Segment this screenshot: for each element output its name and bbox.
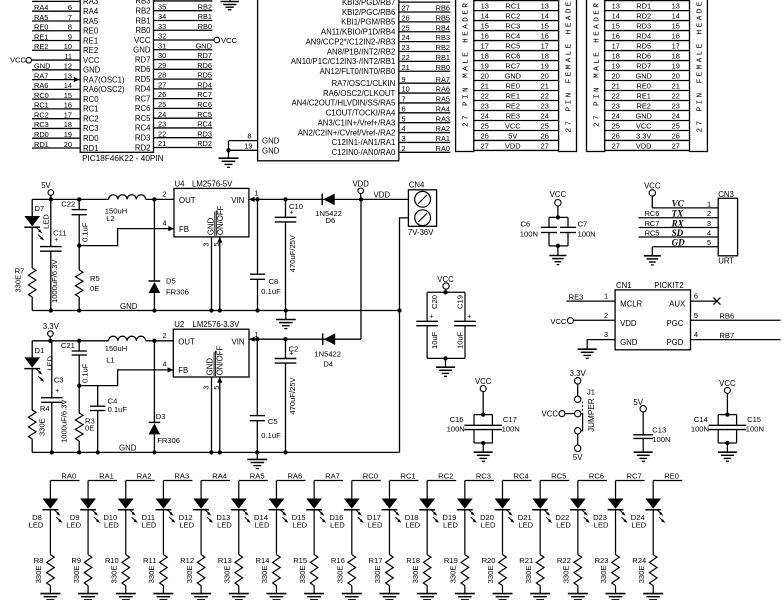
svg-text:R10: R10 — [105, 556, 119, 565]
svg-text:16: 16 — [64, 101, 72, 110]
svg-text:RC1: RC1 — [34, 101, 49, 110]
connector CN3 URT — [718, 190, 737, 266]
svg-text:5: 5 — [212, 386, 221, 390]
svg-text:RB1: RB1 — [198, 12, 212, 21]
svg-text:VIN: VIN — [231, 196, 244, 205]
svg-text:VCC: VCC — [550, 317, 567, 326]
svg-text:330E: 330E — [449, 566, 458, 584]
wire RC3 to LED — [464, 481, 466, 499]
svg-text:22: 22 — [541, 91, 549, 100]
wire header row line — [474, 139, 559, 141]
svg-text:RD6: RD6 — [197, 61, 212, 70]
svg-text:21: 21 — [158, 139, 166, 148]
ground (5V rail) — [276, 311, 296, 329]
svg-text:2: 2 — [707, 209, 711, 218]
wire RA4 to LED — [200, 481, 202, 499]
svg-text:4: 4 — [402, 124, 406, 133]
junction — [152, 339, 156, 343]
wire header row line — [474, 100, 559, 102]
svg-text:R4: R4 — [40, 404, 50, 413]
wire GND pin3 — [587, 330, 615, 349]
capacitor C21 0.1uF — [61, 341, 90, 386]
svg-text:GND: GND — [635, 71, 651, 80]
svg-text:12: 12 — [64, 62, 72, 71]
svg-text:C19: C19 — [456, 295, 465, 309]
LED D12 — [179, 499, 213, 530]
svg-text:17: 17 — [612, 41, 620, 50]
svg-text:AN4/C2OUT/HLVDIN/SS/RA5: AN4/C2OUT/HLVDIN/SS/RA5 — [291, 99, 396, 108]
diode D4 1N5422 — [314, 333, 341, 368]
svg-text:AN12/FLT0/INT0/RB0: AN12/FLT0/INT0/RB0 — [320, 67, 396, 76]
capacitor pair C14 C15 100N — [691, 412, 764, 445]
node RC6 — [578, 472, 607, 481]
wire/pin 15 left (RC0) — [32, 91, 99, 104]
svg-text:24: 24 — [612, 111, 620, 120]
svg-text:RD5: RD5 — [197, 71, 212, 80]
svg-text:0.1uF: 0.1uF — [261, 287, 281, 296]
svg-text:SD: SD — [672, 228, 684, 238]
wire/pin right chip2 (RB6) — [342, 4, 450, 17]
wire/pin right (RC6) — [135, 100, 212, 113]
wire RC0 to LED — [351, 481, 353, 499]
svg-text:RA0: RA0 — [436, 144, 450, 153]
svg-text:18: 18 — [612, 51, 620, 60]
junction — [77, 243, 81, 247]
svg-text:7: 7 — [402, 95, 406, 104]
svg-text:JUMPER: JUMPER — [587, 398, 596, 432]
svg-text:13: 13 — [541, 2, 549, 11]
svg-text:LED: LED — [443, 521, 458, 530]
svg-text:RC3: RC3 — [505, 21, 520, 30]
svg-text:VCC: VCC — [636, 121, 652, 130]
wire header row line — [605, 40, 690, 42]
svg-text:RC7: RC7 — [197, 90, 212, 99]
wire RC1 to LED — [388, 481, 390, 499]
wire/pin right (RD5) — [135, 71, 212, 84]
svg-text:RB4: RB4 — [436, 23, 450, 32]
arrow pin5 up — [217, 237, 222, 243]
svg-text:5V: 5V — [508, 131, 517, 140]
ground (RA2 LED) — [116, 594, 136, 600]
wire LED to resistor — [238, 510, 240, 555]
svg-text:RA2: RA2 — [436, 124, 450, 133]
svg-text:CN1: CN1 — [616, 281, 632, 290]
svg-text:RA7: RA7 — [436, 75, 450, 84]
arrow FB pin4 — [168, 367, 174, 372]
svg-text:LED: LED — [631, 521, 646, 530]
svg-text:RC2: RC2 — [438, 472, 453, 481]
svg-text:3.3V: 3.3V — [570, 369, 587, 378]
svg-text:13: 13 — [64, 71, 72, 80]
resistor R3 0E — [75, 386, 94, 453]
svg-text:C21: C21 — [61, 341, 75, 350]
svg-text:RE1: RE1 — [506, 91, 520, 100]
wire/pin 12 left (GND) — [32, 62, 101, 75]
svg-text:14: 14 — [64, 81, 72, 90]
svg-text:22: 22 — [158, 129, 166, 138]
svg-text:RC1: RC1 — [83, 105, 99, 114]
header row 18 RD6 — [612, 51, 680, 60]
svg-text:RE2: RE2 — [34, 42, 48, 51]
svg-text:27: 27 — [612, 141, 620, 150]
svg-text:330E: 330E — [336, 566, 345, 584]
wire FB network — [79, 229, 174, 246]
junction — [255, 337, 259, 341]
svg-text:29: 29 — [158, 61, 166, 70]
svg-text:LED: LED — [556, 521, 571, 530]
header row 13 RD1 — [612, 2, 680, 11]
svg-text:330E: 330E — [109, 566, 118, 584]
LED D7 — [24, 199, 50, 268]
connector CN4 — [408, 180, 437, 237]
capacitor pair C16 C17 100N — [447, 412, 520, 445]
wire header row line — [474, 129, 559, 131]
wire LED to resistor — [275, 510, 277, 555]
wire LED to resistor — [464, 510, 466, 555]
ground (RE0 LED) — [643, 594, 663, 600]
svg-text:3.3V: 3.3V — [636, 131, 651, 140]
junction — [283, 337, 287, 341]
wire VDD to CN4 — [361, 198, 408, 200]
svg-text:R17: R17 — [369, 556, 383, 565]
svg-text:7V-36V: 7V-36V — [408, 228, 434, 237]
svg-text:16: 16 — [481, 31, 489, 40]
wire CN3 pin 2 TX — [639, 209, 719, 219]
svg-text:VC: VC — [672, 199, 685, 209]
svg-text:D3: D3 — [156, 412, 166, 421]
wire PGC pin5 RB6 — [691, 311, 781, 320]
svg-text:VCC: VCC — [505, 121, 521, 130]
wire/pin 6 left (RA4) — [32, 3, 99, 16]
svg-text:RE0: RE0 — [34, 23, 48, 32]
svg-text:23: 23 — [612, 101, 620, 110]
wire/pin right (RD2) — [135, 139, 212, 152]
wire/pin right (RC7) — [135, 90, 212, 103]
header row 25 VCC — [481, 121, 549, 130]
svg-text:C20: C20 — [430, 295, 439, 309]
svg-text:RE2: RE2 — [506, 101, 520, 110]
LED D17 — [367, 499, 401, 530]
wire rail to U4 OUT — [146, 198, 174, 200]
wire/pin right chip2 (RB5) — [341, 13, 450, 26]
svg-text:GND: GND — [262, 137, 280, 146]
svg-text:31: 31 — [158, 41, 166, 50]
svg-text:LED: LED — [66, 521, 81, 530]
junction — [218, 450, 222, 454]
svg-text:27: 27 — [481, 141, 489, 150]
wire/pin right chip2 (RA7) — [332, 75, 451, 88]
svg-text:C12IN1-/AN1/RA1: C12IN1-/AN1/RA1 — [332, 138, 396, 147]
wire header row line — [474, 20, 559, 22]
svg-text:LED: LED — [368, 521, 383, 530]
svg-text:26: 26 — [158, 90, 166, 99]
header row 20 GND — [612, 71, 680, 80]
wire RC4 to LED — [502, 481, 504, 499]
svg-text:10uF: 10uF — [456, 331, 465, 349]
svg-text:R14: R14 — [256, 556, 270, 565]
arrow FB pin4 — [168, 226, 174, 231]
wire/pin right (GND) — [133, 41, 212, 54]
wire LED to resistor — [49, 510, 51, 555]
svg-text:C17: C17 — [503, 415, 517, 424]
svg-text:PGC: PGC — [666, 319, 683, 328]
svg-text:100N: 100N — [447, 424, 465, 433]
wire resistor to ground — [464, 586, 466, 594]
wire/pin right chip2 (RA5) — [291, 95, 450, 108]
svg-text:VCC: VCC — [719, 379, 736, 388]
junction — [152, 197, 156, 201]
IC U4 LM2576-5V — [174, 180, 249, 237]
wire header row line — [474, 70, 559, 72]
svg-text:RA1: RA1 — [99, 472, 114, 481]
svg-text:9: 9 — [402, 75, 406, 84]
junction — [255, 308, 259, 312]
header row 24 GND — [612, 111, 680, 120]
wire rail to U2 OUT — [146, 340, 174, 342]
svg-text:RA6/OSC2/CLKOUT: RA6/OSC2/CLKOUT — [323, 89, 396, 98]
svg-text:18: 18 — [481, 51, 489, 60]
svg-text:LED: LED — [42, 214, 51, 229]
svg-text:GD: GD — [672, 238, 685, 248]
svg-text:AN9/CCP2*/C12IN2-/RB3: AN9/CCP2*/C12IN2-/RB3 — [306, 37, 396, 46]
svg-text:330E: 330E — [486, 566, 495, 584]
svg-text:20: 20 — [541, 71, 549, 80]
wire header row line — [474, 0, 559, 2]
wire/pin right chip2 (RB2) — [327, 43, 450, 56]
svg-text:6: 6 — [694, 292, 698, 301]
wire pin 19 (GND) — [229, 141, 258, 150]
svg-text:330E: 330E — [637, 566, 646, 584]
LED D21 — [518, 499, 552, 530]
svg-text:23: 23 — [158, 120, 166, 129]
wire RE3 to MCLR pin1 — [566, 292, 615, 302]
wire AUX pin6 with X (no connect) — [691, 292, 721, 305]
junction — [77, 450, 81, 454]
svg-text:RC6: RC6 — [645, 209, 660, 218]
IC PIC18F46K22 (digital pins symbol) body — [80, 0, 153, 152]
wire LED to resistor — [615, 510, 617, 555]
junction — [49, 308, 53, 312]
wire header row line — [605, 129, 690, 131]
svg-text:LED: LED — [104, 521, 119, 530]
svg-text:RB5: RB5 — [436, 13, 450, 22]
header row 27 VDD — [481, 141, 549, 150]
svg-text:LED: LED — [330, 521, 345, 530]
junction — [359, 197, 363, 201]
svg-text:20: 20 — [672, 71, 680, 80]
svg-text:24: 24 — [158, 110, 166, 119]
svg-text:2: 2 — [162, 189, 166, 198]
capacitor C11 1000uF/6.3V — [40, 199, 66, 310]
svg-text:RE2: RE2 — [637, 101, 651, 110]
ground (RA1 LED) — [78, 594, 98, 600]
svg-text:RA3: RA3 — [174, 472, 189, 481]
wire resistor to ground — [275, 586, 277, 594]
node RC3 — [465, 472, 494, 481]
svg-text:C12IN0-/AN0/RA0: C12IN0-/AN0/RA0 — [332, 148, 396, 157]
svg-text:330E: 330E — [298, 566, 307, 584]
wire/pin right (RB2) — [135, 2, 212, 15]
svg-text:25: 25 — [612, 121, 620, 130]
LED D23 — [593, 499, 627, 530]
wire/pin right (RB0) — [135, 22, 212, 35]
svg-text:R18: R18 — [406, 556, 420, 565]
svg-text:5: 5 — [694, 311, 698, 320]
svg-text:FR306: FR306 — [157, 436, 180, 445]
svg-text:RX: RX — [671, 218, 685, 228]
wire/pin right chip2 (RB3) — [306, 33, 451, 46]
svg-text:RA6: RA6 — [436, 85, 450, 94]
wire header row line — [605, 109, 690, 111]
svg-text:RC0: RC0 — [363, 472, 378, 481]
svg-text:LED: LED — [292, 521, 307, 530]
wire CN3 pin 5 GD — [652, 238, 718, 248]
svg-text:RB0: RB0 — [135, 26, 151, 35]
terminal VCC (CN1) — [550, 317, 573, 326]
svg-text:15: 15 — [481, 21, 489, 30]
svg-text:FB: FB — [178, 366, 188, 375]
wire resistor to ground — [125, 586, 127, 594]
ground (RC1 LED) — [379, 594, 399, 600]
junction — [96, 450, 100, 454]
svg-text:R20: R20 — [482, 556, 496, 565]
svg-text:VDD: VDD — [620, 319, 637, 328]
wire RC6 to LED — [577, 481, 579, 499]
ground (chip2 gnd pins) — [219, 158, 239, 167]
svg-text:LM2576-3.3V: LM2576-3.3V — [193, 320, 241, 329]
svg-text:4: 4 — [694, 330, 698, 339]
svg-text:RD7: RD7 — [197, 51, 212, 60]
svg-text:33: 33 — [158, 22, 166, 31]
svg-text:LED: LED — [142, 521, 157, 530]
svg-text:RE0: RE0 — [664, 472, 679, 481]
LED D15 — [292, 499, 326, 530]
svg-text:RC5: RC5 — [645, 228, 660, 237]
svg-text:13: 13 — [481, 2, 489, 11]
svg-text:30: 30 — [158, 51, 166, 60]
wire header row line — [605, 10, 690, 12]
svg-text:RA6(OSC2): RA6(OSC2) — [83, 85, 125, 94]
connector 27 PIN MALE HEADER box — [456, 0, 474, 152]
svg-text:RC0: RC0 — [83, 95, 99, 104]
svg-text:23: 23 — [402, 43, 410, 52]
wire header row line — [605, 70, 690, 72]
svg-text:RC4: RC4 — [505, 31, 520, 40]
svg-text:ON/OFF: ON/OFF — [216, 346, 225, 376]
svg-text:16: 16 — [541, 31, 549, 40]
svg-text:C2: C2 — [289, 345, 299, 354]
svg-text:18: 18 — [64, 120, 72, 129]
svg-text:U2: U2 — [174, 320, 184, 329]
wire header row line — [605, 60, 690, 62]
node RA0 — [50, 472, 79, 481]
svg-text:VCC: VCC — [542, 409, 559, 418]
resistor R5 0E — [75, 246, 99, 311]
svg-text:34: 34 — [158, 12, 166, 21]
svg-text:C16: C16 — [450, 415, 464, 424]
svg-text:VCC: VCC — [644, 181, 661, 190]
svg-text:MCLR: MCLR — [620, 299, 642, 308]
svg-text:330E: 330E — [185, 566, 194, 584]
svg-text:RD5: RD5 — [135, 75, 151, 84]
junction — [48, 339, 52, 343]
svg-text:AN2/C2IN+/CVref/Vref-/RA2: AN2/C2IN+/CVref/Vref-/RA2 — [298, 128, 396, 137]
capacitor C8 0.1uF — [250, 199, 281, 310]
svg-text:RA3: RA3 — [436, 114, 450, 123]
svg-text:RE3: RE3 — [506, 111, 520, 120]
IC PIC18F46K22 second symbol body — [258, 0, 399, 161]
wire FB network — [79, 370, 173, 386]
svg-text:RD3: RD3 — [636, 21, 651, 30]
overline ON/OFF — [215, 211, 217, 236]
wire/pin 10 left (RE2) — [32, 42, 98, 55]
wire header row line — [605, 90, 690, 92]
header row 20 GND — [481, 71, 549, 80]
svg-text:VIN: VIN — [232, 337, 245, 346]
svg-text:FR306: FR306 — [166, 288, 189, 297]
inductor L1 150uH — [105, 336, 146, 364]
wire header row line — [605, 100, 690, 102]
node RC0 — [352, 472, 381, 481]
svg-text:21: 21 — [612, 81, 620, 90]
svg-text:RD2: RD2 — [636, 11, 651, 20]
svg-text:LED: LED — [594, 521, 609, 530]
terminal VDD — [352, 180, 369, 200]
VCC terminal at pin 32 — [214, 36, 238, 45]
svg-text:21: 21 — [481, 81, 489, 90]
terminal VCC (C6/C7) — [550, 190, 567, 218]
svg-text:1000uF/6.3V: 1000uF/6.3V — [60, 399, 69, 443]
ground (RA4 LED) — [191, 594, 211, 600]
capacitor C2 470uF/25V — [275, 339, 299, 452]
ground (C13) — [634, 452, 653, 461]
svg-text:RE0: RE0 — [637, 81, 651, 90]
svg-text:C5: C5 — [268, 417, 278, 426]
svg-text:RC6: RC6 — [505, 51, 520, 60]
svg-text:0.1uF: 0.1uF — [261, 431, 281, 440]
svg-text:RB3: RB3 — [135, 0, 150, 6]
svg-text:KBI2/PGC/RB6: KBI2/PGC/RB6 — [342, 8, 395, 17]
LED D19 — [442, 499, 476, 530]
wire/pin right chip2 (RA0) — [332, 144, 451, 157]
svg-text:21: 21 — [402, 63, 410, 72]
svg-text:100N: 100N — [520, 230, 538, 239]
svg-text:27: 27 — [158, 80, 166, 89]
svg-text:C14: C14 — [694, 415, 708, 424]
svg-text:RA4: RA4 — [436, 104, 450, 113]
jumper J1 — [542, 369, 596, 462]
svg-text:0.1uF: 0.1uF — [108, 405, 128, 414]
arrow pin 13 (MCLR) — [74, 77, 80, 82]
wire/pin right (RD3) — [135, 129, 212, 142]
wire LED to resistor — [426, 510, 428, 555]
node RA2 — [126, 472, 155, 481]
svg-text:VCC: VCC — [83, 56, 100, 65]
junction — [284, 308, 288, 312]
wire/pin right chip2 (KBI3/PGD/RB7) — [342, 0, 450, 7]
svg-text:RC6: RC6 — [135, 104, 151, 113]
wire RA7 to LED — [313, 481, 315, 499]
svg-text:100N: 100N — [578, 230, 596, 239]
svg-text:24: 24 — [402, 33, 410, 42]
svg-text:18: 18 — [672, 51, 680, 60]
svg-text:35: 35 — [158, 2, 166, 11]
header row 15 RC3 — [481, 21, 549, 30]
ground (3.3V rail) — [247, 452, 267, 468]
svg-text:21: 21 — [672, 81, 680, 90]
resistor R11 330E — [143, 555, 167, 586]
svg-text:24: 24 — [672, 111, 680, 120]
